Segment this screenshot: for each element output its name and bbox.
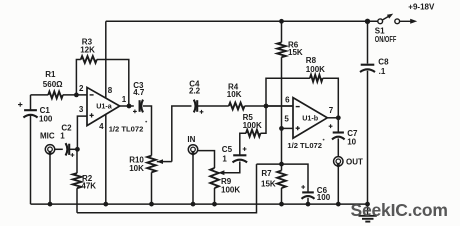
svg-text:100: 100 [39, 114, 53, 123]
wire: MIC tip to C2 [55, 148, 63, 150]
label pin 2 [79, 84, 84, 93]
polarity + of C2 [71, 153, 75, 157]
svg-text:6: 6 [285, 96, 290, 105]
node: pin 6 summing junction [264, 104, 269, 109]
wire: R10 wiper up and over to C4 [172, 106, 192, 162]
svg-text:8: 8 [108, 86, 113, 95]
label C8 [378, 58, 389, 77]
wiper of R10 [157, 159, 172, 164]
op-amp U1-a [87, 87, 120, 125]
label +9-18V [408, 2, 435, 11]
node: C6 ground junction [306, 202, 311, 207]
svg-text:100K: 100K [221, 186, 240, 195]
label C7 [347, 129, 358, 146]
capacitor C4 2.2 [194, 100, 197, 113]
node: IN ground junction [191, 202, 196, 207]
svg-text:560Ω: 560Ω [43, 80, 63, 89]
wire: C7 to OUT jack [337, 138, 339, 156]
resistor R8 100K feedback [266, 75, 338, 118]
wire: pin 5 stub [282, 127, 294, 129]
svg-text:100K: 100K [243, 121, 262, 130]
stray mark near U1-b label [323, 139, 325, 141]
label pin 8 [108, 86, 113, 95]
polarity + of C6 [301, 185, 305, 189]
node: pin 7 junction [336, 115, 341, 120]
svg-text:2: 2 [79, 84, 84, 93]
label pin 7 [329, 106, 334, 115]
capacitor C7 10 [332, 133, 345, 140]
wire: OUT shell to ground rail [337, 166, 339, 204]
svg-text:7: 7 [329, 106, 334, 115]
microphone jack MIC [45, 145, 54, 156]
svg-text:100: 100 [317, 193, 331, 202]
svg-text:U1-b: U1-b [302, 114, 319, 123]
node: pin 3 / R2 junction [75, 147, 80, 152]
label pin 6 [285, 96, 290, 105]
wire: ground rail [31, 203, 368, 205]
wire: IN tip to R9 top [198, 151, 215, 168]
capacitor C2 1 [66, 143, 70, 155]
wire: IN shell to ground [192, 155, 194, 205]
wire: C1 branch from input line to ground [30, 95, 32, 204]
polarity + of C7 [329, 124, 333, 128]
resistor R7 15K [277, 171, 286, 205]
wire: bias node horizontal to C6 [257, 164, 309, 192]
label IN [187, 135, 195, 144]
label R9 [221, 177, 240, 195]
wire: C2 to pin 3 [69, 116, 87, 149]
svg-text:ON/OFF: ON/OFF [375, 35, 397, 44]
wire: U1a output to C3 [120, 105, 134, 107]
polarity + of C3 [133, 110, 137, 114]
node: R7 ground junction [279, 202, 284, 207]
input jack IN [188, 145, 197, 156]
wire: pin 5 node down to divider junction [281, 128, 283, 170]
label R6 [288, 40, 303, 57]
node: switch/C8 tap on supply rail [365, 19, 370, 24]
wire: R3 feedback loop [76, 60, 128, 107]
wire: switch node down to C8 and ground [367, 21, 369, 204]
label pin 1 [122, 95, 127, 104]
svg-text:100K: 100K [306, 65, 325, 74]
wire: R5 left leg down to C5 [240, 133, 246, 155]
resistor R6 15K [277, 21, 286, 57]
node: MIC ground junction [48, 202, 53, 207]
svg-text:5: 5 [284, 115, 289, 124]
wire: R10 bottom to ground rail [151, 172, 153, 204]
wire: C3 to R10 top [143, 106, 152, 156]
svg-text:1: 1 [122, 95, 127, 104]
svg-text:R8: R8 [306, 56, 317, 65]
wire: MIC shell to ground [49, 154, 51, 204]
watermark SeekIC.com [351, 200, 448, 220]
label R5 [243, 113, 262, 130]
svg-text:C8: C8 [378, 58, 389, 67]
label C3 [133, 81, 145, 97]
label S1 [375, 27, 397, 45]
svg-text:.1: .1 [379, 67, 386, 76]
label C6 [317, 186, 331, 202]
capacitor C5 1 [233, 155, 248, 162]
label MIC [40, 131, 55, 140]
svg-text:10: 10 [347, 138, 356, 147]
output jack OUT [334, 157, 343, 168]
label C5 [222, 145, 233, 163]
svg-text:+9-18V: +9-18V [408, 2, 435, 11]
node: supply decoupling ground junction [365, 202, 370, 207]
svg-text:R1: R1 [45, 70, 56, 79]
svg-text:1/2 TL072: 1/2 TL072 [109, 124, 144, 133]
capacitor C1 100 [23, 110, 37, 117]
wire: input line to pin 2 [31, 94, 88, 96]
label R10 [129, 155, 144, 172]
potentiometer R9 100K [210, 168, 219, 188]
polarity + of C1 [18, 102, 22, 106]
label pin 4 [99, 122, 104, 131]
resistor R2 47K [73, 173, 82, 188]
svg-text:U1-a: U1-a [96, 102, 113, 111]
resistor R3 12K [81, 56, 97, 63]
stray mark near U1-a label [145, 121, 147, 123]
node: OUT ground junction [336, 202, 341, 207]
ground symbol [359, 204, 377, 222]
wire: U1b output to pin 7 node [327, 117, 338, 119]
label C2 [60, 124, 72, 141]
svg-text:1: 1 [222, 155, 227, 164]
svg-text:IN: IN [187, 135, 195, 144]
node: R9 ground junction [212, 202, 217, 207]
svg-text:SeekIC.com: SeekIC.com [351, 200, 448, 220]
label pin 3 [79, 105, 84, 114]
svg-text:10K: 10K [129, 164, 144, 173]
polarity + of C4 [200, 110, 204, 114]
wire: pin 6 stub [266, 105, 293, 107]
svg-text:15K: 15K [261, 180, 276, 189]
wire: C5 bottom to R9 wiper [223, 162, 240, 173]
wire: R4 to pin 6 node [245, 105, 294, 107]
svg-text:OUT: OUT [346, 158, 363, 167]
label pin 5 [284, 115, 289, 124]
label R7 [261, 169, 276, 189]
resistor R5 100K [246, 130, 261, 137]
wire: U1a pin 8 supply lead [105, 21, 107, 98]
resistor R4 10K [229, 103, 245, 110]
label 1/2 TL072 (U1-b) [287, 141, 322, 150]
switch S1 ON/OFF [378, 14, 417, 24]
svg-text:1: 1 [60, 131, 65, 140]
resistor R1 560Ω [48, 92, 63, 99]
svg-text:2.2: 2.2 [189, 87, 201, 96]
op-amp U1-b [293, 98, 327, 139]
svg-text:12K: 12K [80, 46, 95, 55]
label R4 [227, 82, 242, 98]
wire: U1a pin 4 to ground rail [105, 114, 107, 204]
node: R6 tap on supply rail [279, 19, 284, 24]
wire: R2 leads down to bias line [76, 149, 78, 213]
svg-text:R7: R7 [261, 169, 272, 178]
svg-text:C5: C5 [222, 145, 233, 154]
wire: C4 to R4 [197, 105, 229, 107]
node: pin 5 junction [279, 126, 284, 131]
svg-text:47K: 47K [81, 181, 96, 190]
wire: R5 right leg up to pin 6 node [261, 106, 267, 133]
label C4 [189, 80, 201, 96]
label R8 [306, 56, 325, 74]
potentiometer R10 10K [147, 156, 156, 173]
svg-text:4: 4 [99, 122, 104, 131]
svg-text:MIC: MIC [40, 131, 55, 140]
node: pin 2 junction [74, 93, 79, 98]
svg-text:15K: 15K [288, 48, 303, 57]
label R1 [43, 70, 63, 89]
wire: top supply rail [106, 20, 378, 22]
capacitor C8 .1 [360, 65, 375, 72]
svg-text:10K: 10K [227, 90, 242, 99]
wire: pin 7 node down to C7 [337, 118, 339, 133]
label OUT [346, 158, 363, 167]
label C1 [39, 106, 53, 123]
capacitor C6 100 [302, 192, 315, 204]
svg-text:3: 3 [79, 105, 84, 114]
label R3 [80, 37, 95, 54]
label 1/2 TL072 (U1-a) [109, 124, 144, 133]
wire: R9 bottom to ground rail [214, 188, 216, 204]
node: pin 1 / R3 / C3 junction [127, 104, 132, 109]
polarity + of C5 [243, 147, 247, 151]
node: bias divider junction [279, 162, 284, 167]
svg-text:1/2 TL072: 1/2 TL072 [287, 141, 322, 150]
label R2 [81, 174, 96, 191]
wiper of R9 [218, 170, 224, 175]
node: pin 4 ground junction [103, 202, 108, 207]
wire: bias distribution line (R2 to divider node) [77, 164, 257, 213]
capacitor C3 4.7 [140, 100, 143, 113]
svg-text:4.7: 4.7 [133, 88, 145, 97]
node: R10 ground junction [149, 202, 154, 207]
wire: R6 bottom down to pin 5 node [281, 57, 283, 128]
